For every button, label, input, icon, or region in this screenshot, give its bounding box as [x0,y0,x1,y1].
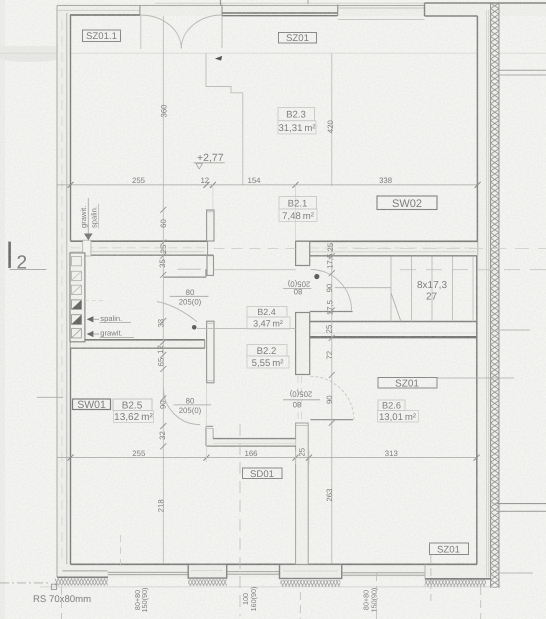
window tag SW02 [377,196,437,210]
wall W1 lower top cap [296,425,309,427]
room tag B2.5 [113,399,152,411]
bottom wall left corner block [57,576,108,578]
bottom exterior wall band fill [57,564,490,578]
right wall air gap lines [486,10,488,577]
black dot hall [192,325,197,330]
bottom wall top face [71,563,478,565]
door tag SD01 [243,468,283,479]
wall H3 right jamb [204,340,206,348]
flue gap in wall H1 [83,240,91,256]
door c leaf [310,311,353,313]
axis dashed x=240 bottom [239,424,241,616]
top edge tick marks [220,0,222,5]
room area 13,01 m2 [378,411,419,423]
horizontal dim line y=184.9 [57,184,478,186]
horizontal dim line y=457.6 [57,457,477,459]
inner wall H1 top face [71,240,208,242]
B2.6 top wall inner light line [310,332,476,334]
left wall inner face upper [70,15,72,241]
inner wall H2 top face [296,240,478,242]
stub C vertical [207,321,214,383]
flue box 3 [71,285,81,294]
room tag B2.1 [279,196,317,209]
dim ticks bottom chain [68,455,480,461]
inner wall H1 center dash [71,247,208,249]
bottom hatch strip pier1 [188,579,227,586]
window SZ01 bottom glazing [342,572,425,574]
arrow to spalin [87,316,94,322]
dashed mark right of chimney [85,300,103,302]
room tag B2.4 [247,307,287,318]
wall W1 stub between doors [296,313,310,375]
inner wall H1 bottom face [71,254,214,256]
leader SZ01 right window [437,377,514,379]
door jamb left [139,6,141,16]
room area 31,31 m2 [278,121,316,134]
room tag B2.2 [247,345,287,357]
stair bottom wall face [310,321,477,323]
right wall hatch band [491,3,499,588]
door a arc (hall) [157,302,197,322]
ground line below wall [40,586,495,588]
top wall step at x=424.5 [424,3,426,16]
axis line x=331.8 [331,53,333,186]
right wall inner face [476,16,478,256]
window SD01 glazing [227,571,280,573]
bottom left dash-dot line [0,582,50,584]
right wall inner face lower [476,256,478,565]
left wall inner face lower [70,342,72,565]
ticks on axis x=331.8 [329,253,335,425]
extension line x=212.9 [212,185,214,209]
door d arc [310,376,353,419]
neighbour wall stub top right [499,69,546,71]
inner wall H2 inner line [310,251,476,253]
extension verticals bottom [206,383,208,462]
inner wall H1 inner line [71,251,205,253]
top wall outer line dark right [425,2,546,4]
L-wall stub left face [205,426,207,446]
window tag SZ01 bottom [430,543,469,555]
L-wall stub inner face [212,428,214,438]
top wall inner face left segment [70,14,140,16]
inner wall H2 center dash [296,247,476,249]
french door right arc [181,15,222,49]
RS duct square [51,584,56,589]
scan faint horizontal streak [0,46,68,58]
left wall second line [66,13,68,564]
top exterior wall band fill [57,3,546,16]
leader line with down arrow [87,198,89,234]
wall H1 right jamb [207,241,209,255]
scan left edge faint band [0,0,5,619]
window SZ01 glazing bottom [222,15,338,17]
top wall outer line [57,5,425,7]
window tag SZ01.1 [83,30,121,42]
dashed lines through stair hall [354,247,546,249]
L-wall stub top cap [206,425,213,427]
room area 7,48 m2 [279,209,317,222]
flue box 4 filled triangle [71,300,81,309]
stair treads [390,257,392,322]
window jamb right [337,5,339,16]
room area 3,47 m2 [247,317,290,329]
flue box 1 [71,257,81,266]
inner wall H3 top face [71,339,205,341]
inner wall H2 fill [296,241,478,256]
bottom hatch strip left corner [55,579,108,586]
door d leaf [310,419,353,421]
stub above wall H1 [207,210,214,241]
wall H2 left end block [296,241,310,265]
window SZ01 glazing top [222,12,338,14]
bottom wall pier 1 [188,564,227,578]
L-wall top face [213,438,296,440]
left wall tick [37,396,63,398]
L-wall inner light line [213,442,295,444]
opening dashed lines wall H1 gap [214,247,296,249]
room tag B2.6 [378,400,405,411]
dim ticks top chain [68,182,481,188]
window tag SZ01 right [378,378,437,389]
top wall inner light segment C [338,19,425,21]
door a leaf open rectangle [162,269,164,277]
inner wall H3 bottom face [71,347,205,349]
top wall second line left [57,9,140,11]
B2.6 top wall face [310,336,477,338]
door b arc (into B2.5) [163,388,200,425]
right exterior wall band fill [478,10,499,578]
door c arc [311,270,352,311]
bottom hatch strip junction [281,580,341,587]
flue box 2 [71,271,81,280]
wall W1 lower segment [296,423,309,564]
black dot near stairs [314,274,319,279]
left wall insulation dashed center [61,20,63,560]
window tag SW01 [73,399,111,410]
bottom dashed axes [61,587,63,619]
flue box 5 filled triangle [71,315,81,325]
axis line x=163.3 [162,16,164,564]
small black arrow mark [215,56,222,61]
bottom wall junction pier [280,564,342,578]
room tag B2.3 [278,108,315,121]
left exterior wall band fill [57,5,71,577]
stair cut diagonal [391,293,401,322]
french door jamb drop lines [140,15,142,49]
flue box 6 [71,329,81,338]
room area 13,62 m2 [114,411,154,423]
roof outline step dashed [206,53,243,185]
inner wall H3 fill [71,340,205,348]
extension line x=295.5 [295,185,297,240]
arrow to grawit [87,331,94,337]
section mark 2 [8,242,11,268]
window tag SZ01 top [279,33,317,44]
bottom wall right corner block [425,578,491,580]
stair mid landing line [335,287,391,289]
line outside right wall bottom [497,572,533,574]
top wall second line [338,7,425,9]
stub below wall H1 [207,256,214,276]
bottom hatch strip right corner [425,579,486,586]
ticks on axis x=163.3 [160,207,166,449]
window SW01 glazing [108,571,189,573]
chimney shaft outline [70,253,85,342]
inner wall H2 bottom face [310,255,477,257]
door threshold line hall to B2.4 zone [197,328,296,330]
L-wall below B2.2 fill [206,439,296,447]
inner wall H1 fill [71,241,208,255]
french door left arc [141,15,181,49]
neighbour wall stub bottom right [497,503,546,505]
door d jamb dashed [297,376,299,423]
L-wall bottom face [206,445,296,447]
door jamb right / window jamb [221,5,223,16]
line outside right wall mid [491,329,530,331]
top wall inner face right segment [425,15,478,17]
left wall outer face [56,6,58,578]
room area 5,55 m2 [247,356,289,368]
